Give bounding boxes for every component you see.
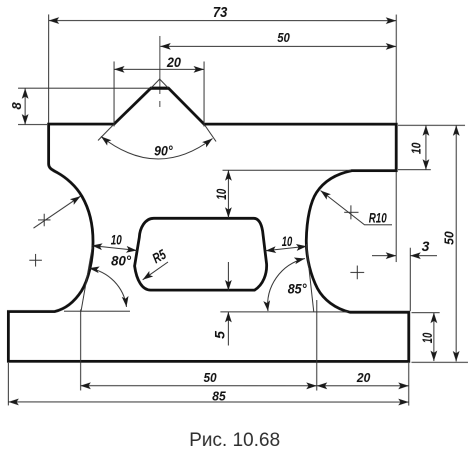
label R5 leader xyxy=(143,262,168,280)
svg-text:85: 85 xyxy=(212,388,226,403)
center cross left R10 xyxy=(38,219,51,221)
reference line y=170 xyxy=(223,169,351,171)
angle 80 arc xyxy=(89,268,127,307)
reference line y=362.3 right xyxy=(411,361,468,363)
svg-text:80°: 80° xyxy=(111,252,131,268)
dimension 73 xyxy=(48,14,50,122)
dimension 8 xyxy=(18,87,151,89)
dimension 50 right xyxy=(455,125,457,361)
angle 85 arc xyxy=(268,259,305,312)
dimension 85 bottom xyxy=(8,401,408,403)
svg-text:73: 73 xyxy=(213,4,228,21)
tangent line 80 xyxy=(81,247,92,312)
dimension 10 top right xyxy=(425,125,427,169)
dimension 50 bottom xyxy=(80,385,316,387)
svg-text:10: 10 xyxy=(282,233,293,249)
dimension 20 top xyxy=(113,61,115,126)
svg-text:10: 10 xyxy=(408,142,423,154)
dimension 5 xyxy=(227,262,229,291)
dimension 20 bottom xyxy=(317,385,409,387)
svg-text:20: 20 xyxy=(166,54,181,70)
part outline xyxy=(8,88,408,361)
center cross right R10 xyxy=(344,211,358,213)
reference line y=125.3 right xyxy=(398,124,465,126)
bottom extension lines xyxy=(7,363,9,406)
dimension 10 bottom right xyxy=(433,313,435,361)
apex thin lines xyxy=(151,79,169,88)
center cross right lower xyxy=(350,271,364,273)
svg-text:R10: R10 xyxy=(369,209,387,225)
centerline xyxy=(159,36,161,94)
svg-text:Рис. 10.68: Рис. 10.68 xyxy=(189,430,280,451)
dimension 10 above slot xyxy=(227,170,229,218)
svg-text:90°: 90° xyxy=(154,142,173,158)
svg-text:10: 10 xyxy=(111,231,122,247)
svg-text:10: 10 xyxy=(419,333,435,344)
reference line y=312.6 right xyxy=(411,312,439,314)
dimension 3 xyxy=(395,172,397,262)
angle 90 arc xyxy=(101,136,213,159)
svg-text:8: 8 xyxy=(9,102,24,110)
svg-text:20: 20 xyxy=(356,370,371,385)
svg-text:5: 5 xyxy=(211,331,227,339)
svg-text:50: 50 xyxy=(441,231,456,245)
svg-text:85°: 85° xyxy=(288,281,307,297)
dimension 10 left gap xyxy=(92,246,137,251)
svg-text:50: 50 xyxy=(204,370,218,385)
triangle flat top xyxy=(151,87,169,90)
svg-text:10: 10 xyxy=(213,189,229,200)
radius R10 right leader xyxy=(321,191,393,225)
reference line y=311.9 right xyxy=(220,311,348,313)
slot hole xyxy=(135,218,267,290)
reference line y=311.3 left xyxy=(64,310,130,312)
radius R10 left leader xyxy=(34,196,81,228)
tangent line 85 xyxy=(306,244,314,312)
svg-text:3: 3 xyxy=(422,238,430,254)
dimension 50 top xyxy=(160,45,396,47)
svg-text:50: 50 xyxy=(277,30,290,45)
center cross left lower xyxy=(29,259,42,261)
dimension 10 right gap xyxy=(265,246,306,251)
slope extensions xyxy=(98,124,114,140)
